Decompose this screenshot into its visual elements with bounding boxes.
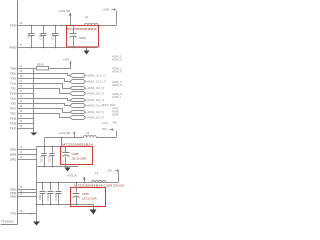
pin 38 number	[20, 111, 23, 113]
pin 47 name TX00	[10, 66, 17, 70]
wire rail GND top y47	[18, 47, 98, 49]
wire TX2- to flag	[18, 104, 70, 106]
pin 43 number	[20, 86, 23, 88]
capacitor C101	[46, 183, 54, 205]
pin 43b number	[20, 211, 23, 213]
node C104 top	[55, 25, 57, 27]
svg-text:TXC+: TXC+	[10, 106, 17, 110]
svg-text:LR01: LR01	[10, 152, 17, 156]
net flag HDMI_CLK_N	[70, 74, 106, 78]
node net HDMI fragment 2	[112, 109, 119, 113]
node C102 bottom	[43, 47, 45, 49]
svg-text:C128: C128	[72, 152, 79, 156]
svg-text:+3V3_B2: +3V3_B2	[59, 131, 71, 135]
net flag HDMI_CLK_P	[70, 80, 106, 84]
svg-text:HDMI_CLK_N: HDMI_CLK_N	[87, 74, 106, 78]
inductor L4	[74, 15, 117, 26]
node +3V3_R2 stub	[70, 25, 72, 27]
node LR02 junction	[36, 159, 38, 161]
capacitor C103	[54, 183, 62, 205]
svg-text:LR02: LR02	[10, 157, 17, 161]
wire row y68 to R143	[18, 68, 37, 70]
wire R143 to +3V3	[49, 64, 71, 69]
wire XX02	[18, 196, 37, 198]
pin 37 name TXS1	[10, 116, 17, 120]
pin 35 name TXS3	[10, 126, 17, 130]
wire TXS1 gnd stub	[18, 118, 34, 120]
IC U1 bottom edge	[1, 224, 18, 226]
svg-text:MT22026051B14: MT22026051B14	[62, 142, 94, 146]
highlight box around C109	[71, 188, 106, 207]
node C98 top	[31, 25, 33, 27]
value label 22U 16 220R (C109)	[82, 197, 97, 201]
svg-text:PY00: PY00	[10, 24, 17, 28]
wire LR00	[18, 149, 37, 151]
svg-text:TXS1: TXS1	[10, 116, 17, 120]
pin 6 name XX01	[10, 191, 17, 195]
svg-text:+3V3_B: +3V3_B	[67, 173, 77, 177]
svg-text:+3V3_R2: +3V3_R2	[59, 9, 71, 13]
node XX01 junction	[36, 192, 38, 194]
svg-text:C109: C109	[82, 192, 89, 196]
svg-text:C115: C115	[40, 155, 44, 162]
wire TXS0 gnd stub	[18, 93, 34, 95]
node C96 bottom	[42, 204, 44, 206]
svg-text:C102: C102	[38, 32, 42, 39]
svg-text:TX0+: TX0+	[10, 71, 17, 75]
pin 17 name PO00	[10, 46, 17, 50]
highlight box around C106	[67, 26, 99, 47]
pin 7 number	[20, 187, 23, 189]
node C102 top	[43, 25, 45, 27]
svg-text:22U 16 220R: 22U 16 220R	[82, 197, 97, 201]
node label TPY0/P10	[1, 219, 14, 223]
node TY00 junction	[30, 213, 32, 215]
node TXS0 junction	[33, 93, 35, 95]
node net HDMI_EN (cropped right)	[112, 92, 122, 96]
power flag +5V (bottom)	[107, 168, 119, 182]
node net HDMI_DET (cropped right)	[112, 83, 122, 87]
pin 14 name LR01	[10, 152, 17, 156]
svg-text:+5V: +5V	[102, 127, 107, 131]
svg-text:C96: C96	[38, 194, 42, 200]
node net HDMI_SDA (cropped right)	[112, 55, 122, 59]
node shield tap row 68	[33, 68, 35, 70]
node C106 bottom	[73, 47, 75, 49]
annotation text BY20506051B1A	[67, 27, 97, 31]
power flag +3V3 (top right)	[103, 7, 117, 25]
node C96 top	[42, 182, 44, 184]
pin 7 name XX00	[10, 187, 17, 191]
svg-text:HDMI_S: HDMI_S	[112, 58, 122, 62]
ground arrow below C109 box	[90, 205, 97, 215]
capacitor C96	[38, 183, 46, 205]
svg-text:R143: R143	[37, 62, 44, 66]
node C98 bottom	[31, 47, 33, 49]
svg-text:TX0-: TX0-	[11, 76, 17, 80]
svg-text:BY20506051B1A: BY20506051B1A	[67, 27, 97, 31]
svg-text:XX02: XX02	[10, 194, 17, 198]
wire TXC+ to flag	[18, 109, 70, 113]
pin 40 name TX2-	[11, 101, 17, 105]
node C106 top	[73, 25, 75, 27]
svg-text:HDMI_CLK_P: HDMI_CLK_P	[87, 80, 106, 84]
svg-text:HDMI_I: HDMI_I	[112, 95, 121, 99]
pin 13 name LR02	[10, 157, 17, 161]
net flag HDMI_D0_P	[70, 92, 104, 96]
svg-text:TPY0/P10: TPY0/P10	[1, 219, 14, 223]
node LR01 junction	[36, 154, 38, 156]
wire rail AVDD top y25	[18, 25, 74, 27]
node C109 bottom	[76, 204, 78, 206]
svg-text:+5V: +5V	[107, 168, 112, 172]
wire TX2+ to flag	[18, 99, 70, 101]
ground arrow below C106 box	[84, 48, 90, 55]
pin 43 name TX1-	[11, 86, 17, 90]
capacitor C104	[50, 26, 58, 48]
wire rail mid top y146.3	[37, 146, 64, 148]
svg-text:C117: C117	[48, 155, 52, 162]
svg-text:HDMI: HDMI	[112, 112, 119, 116]
svg-text:TX00: TX00	[10, 66, 17, 70]
svg-text:HDMI_D2_P: HDMI_D2_P	[87, 116, 104, 120]
pin 18 number	[20, 23, 23, 25]
node XX rail crossing	[36, 204, 38, 206]
pin 44 number	[20, 81, 23, 83]
node net HDMI_SCL (cropped right)	[112, 58, 122, 62]
pin 42 number	[20, 91, 23, 93]
node +3V3_B2 stub	[74, 137, 76, 139]
node net HDMI_INT (cropped right)	[112, 95, 121, 99]
node net GPIO (cropped right)	[112, 106, 119, 110]
node C101 top	[50, 182, 52, 184]
svg-text:HDMI_D: HDMI_D	[112, 83, 122, 87]
power flag +3V3_B	[67, 173, 86, 182]
svg-text:C103: C103	[54, 193, 58, 200]
net flag HDMI_D1_N	[70, 98, 104, 102]
pin 36 name TXS2	[10, 121, 17, 125]
pin 35 number	[20, 126, 23, 128]
value label C106	[79, 36, 86, 40]
wire LR01	[18, 154, 37, 156]
wire TY00	[18, 213, 37, 215]
net flag HDMI_D0_N	[70, 86, 104, 90]
pin 40 number	[20, 101, 23, 103]
power flag +5V (middle)	[102, 127, 117, 137]
pin 39 name TXC+	[10, 106, 17, 110]
power flag +3V3_B2	[59, 131, 76, 138]
wire rail bottom top y182.4	[37, 182, 119, 184]
power flag +3V3 (R143)	[63, 58, 72, 64]
pin 15 name LR00	[10, 147, 17, 151]
wire TXC- to flag	[18, 114, 70, 118]
pin 44 name TX1+	[10, 81, 17, 85]
svg-text:XX00: XX00	[10, 187, 17, 191]
pin 37 number	[20, 116, 23, 118]
node net HDMI fragment 3	[112, 112, 119, 116]
pin 36 number	[20, 121, 23, 123]
node net HDMI_PWR (cropped right)	[112, 80, 122, 84]
capacitor C106 (polarized)	[67, 26, 77, 48]
svg-text:C104: C104	[50, 32, 54, 39]
svg-text:TX2+: TX2+	[10, 96, 17, 100]
pin 41 number	[20, 96, 23, 98]
svg-text:TY00: TY00	[10, 211, 17, 215]
svg-text:+3V3_: +3V3_	[102, 121, 110, 125]
pin 5 name XX02	[10, 194, 17, 198]
value label 22U 16 220R	[72, 157, 87, 161]
wire XX01	[18, 192, 37, 194]
wire TXS2 gnd stub	[18, 123, 34, 125]
wire L3 feed down to rail	[44, 138, 46, 147]
node C101 bottom	[50, 204, 52, 206]
IC U1 right edge	[17, 1, 19, 225]
node C115 bottom	[44, 166, 46, 168]
svg-text:L1: L1	[95, 171, 99, 175]
svg-text:C101: C101	[46, 193, 50, 200]
pin 41 name TX2+	[10, 96, 17, 100]
inductor L3	[45, 131, 117, 138]
net flag HDMI_D1_P	[70, 104, 104, 108]
pin 14 number	[20, 152, 23, 154]
svg-text:+3V3: +3V3	[63, 58, 70, 62]
node box2 feed	[61, 137, 63, 139]
svg-text:HDMI_H: HDMI_H	[112, 70, 122, 74]
pin 43b name TY00	[10, 211, 17, 215]
svg-text:TXC-: TXC-	[10, 111, 16, 115]
node C104 bottom	[55, 47, 57, 49]
power flag +3V3_R2	[59, 9, 72, 26]
wire TXS3 gnd stub	[18, 128, 34, 130]
node C103 bottom	[58, 204, 60, 206]
svg-text:TXS0: TXS0	[10, 91, 17, 95]
pin 13 number	[20, 157, 23, 159]
node C103 top	[58, 182, 60, 184]
svg-text:TX2-: TX2-	[11, 101, 17, 105]
svg-text:XX01: XX01	[10, 191, 17, 195]
ground arrow below C128	[65, 167, 71, 172]
wire box2 feed	[61, 138, 63, 147]
node C109 top	[76, 182, 78, 184]
pin 5 number	[20, 194, 23, 196]
capacitor C115	[40, 147, 47, 167]
annotation text MT22026051B14 (above C109 box)	[74, 184, 125, 188]
svg-text:L4: L4	[85, 15, 89, 19]
svg-text:C106: C106	[79, 36, 86, 40]
inductor L1	[92, 171, 106, 182]
capacitor C98	[26, 26, 34, 48]
value label C128	[72, 152, 79, 156]
node TXS2 junction	[33, 123, 35, 125]
svg-text:TXS2: TXS2	[10, 121, 17, 125]
capacitor C109 (polarized)	[71, 183, 80, 205]
pin 46 name TX0+	[10, 71, 17, 75]
pin 17 number	[20, 45, 23, 47]
node rail tap	[36, 182, 38, 184]
wire TX1+ to flag	[18, 84, 70, 89]
wire gnd vertical (TX shield)	[33, 69, 35, 133]
capacitor C117	[48, 147, 55, 167]
wire vertical XX join to ground	[36, 147, 38, 222]
node TXS1 junction	[33, 118, 35, 120]
svg-text:HDMI_D1_N: HDMI_D1_N	[87, 98, 104, 102]
resistor R143	[37, 62, 49, 70]
node C117 bottom	[52, 166, 54, 168]
capacitor C102	[38, 26, 46, 48]
node +3V3_B stub	[84, 182, 86, 184]
pin 6 number	[20, 191, 23, 193]
svg-text:PO00: PO00	[10, 46, 17, 50]
pin 18 name PY00	[10, 24, 17, 28]
svg-text:HDMI_D0_P: HDMI_D0_P	[87, 92, 104, 96]
svg-text:L3: L3	[86, 131, 90, 135]
node XX02 junction	[36, 196, 38, 198]
node C128 bottom	[65, 166, 67, 168]
wire rail bottom bottom y204.9	[37, 204, 94, 206]
ground (bottom left)	[33, 222, 40, 226]
node L4 tap	[61, 25, 63, 27]
annotation text MT22026051B14 (above C128 box)	[62, 142, 94, 146]
capacitor C128 (polarized)	[61, 147, 70, 167]
net flag HDMI_D2_N	[70, 110, 104, 114]
node net CEC WAKE note	[102, 103, 116, 107]
svg-text:TX1-: TX1-	[11, 86, 17, 90]
value label C109	[82, 192, 89, 196]
svg-text:TXS3: TXS3	[10, 126, 17, 130]
net flag HDMI_D2_P	[70, 116, 104, 120]
pin 15 number	[20, 147, 23, 149]
svg-text:C98: C98	[26, 33, 30, 39]
wire TX0+ to flag	[18, 74, 70, 76]
wire rail mid bottom y166.2	[37, 166, 79, 168]
svg-text:(CEC) WAK: (CEC) WAK	[102, 103, 116, 107]
power flag +3V3 (cropped right)	[102, 121, 117, 125]
ground (TX shield)	[31, 133, 38, 136]
node net HDMI_HPD (cropped right)	[112, 70, 122, 74]
svg-text:HDMI_D0_N: HDMI_D0_N	[87, 86, 104, 90]
wire TX1- to flag	[18, 89, 70, 94]
pin 45 number	[20, 76, 23, 78]
wire TX0- to flag	[18, 79, 70, 82]
pin 42 name TXS0	[10, 91, 17, 95]
svg-text:22U 16 220R: 22U 16 220R	[72, 157, 87, 161]
pin 47 number	[20, 66, 23, 68]
node C115 top	[44, 146, 46, 148]
wire XX00	[18, 189, 37, 191]
highlight box around C128	[61, 147, 93, 165]
svg-text:LR00: LR00	[10, 147, 17, 151]
wire LR02	[18, 159, 37, 161]
pin 45 name TX0-	[11, 76, 17, 80]
pin 39 number	[20, 106, 23, 108]
node net HDMI_CEC (cropped right)	[112, 67, 122, 71]
wire vertical mid-to-bottom rail	[36, 167, 38, 205]
pin 46 number	[20, 71, 23, 73]
svg-text:+3V3: +3V3	[103, 7, 110, 11]
node C117 top	[52, 146, 54, 148]
pin 38 name TXC-	[10, 111, 16, 115]
node C128 top	[65, 146, 67, 148]
svg-text:HDMI_D2_N: HDMI_D2_N	[87, 110, 104, 114]
svg-text:TX1+: TX1+	[10, 81, 17, 85]
